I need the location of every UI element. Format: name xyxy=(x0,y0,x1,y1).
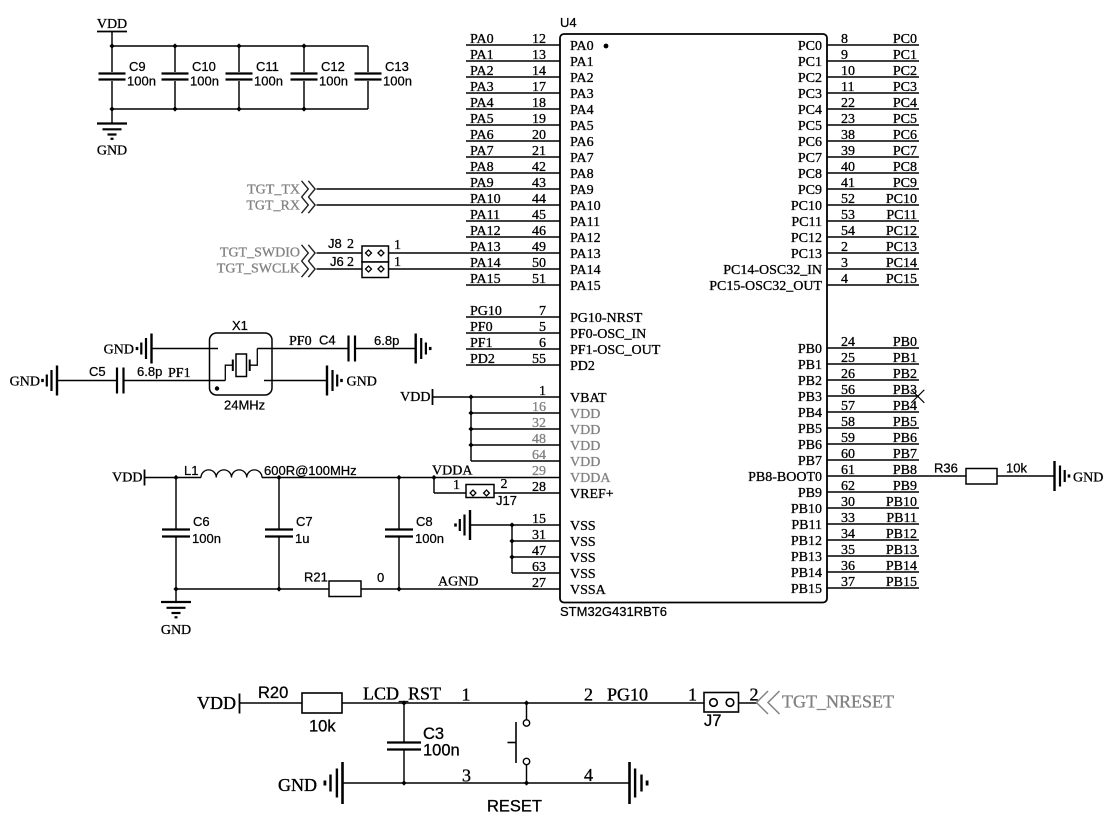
svg-text:GND: GND xyxy=(97,144,127,159)
junction (VREF tap) xyxy=(431,475,436,480)
svg-text:PB11: PB11 xyxy=(791,518,822,533)
svg-text:30: 30 xyxy=(841,495,855,510)
svg-text:PB0: PB0 xyxy=(893,335,917,350)
capacitor C8 xyxy=(398,478,400,530)
svg-text:58: 58 xyxy=(841,415,855,430)
svg-text:PA4: PA4 xyxy=(470,96,494,111)
wire J17 to VREF+ pin xyxy=(494,492,560,494)
svg-text:PB13: PB13 xyxy=(791,550,822,565)
wire VDD to L1 xyxy=(145,477,201,479)
ground (VSS) xyxy=(469,510,471,540)
svg-text:VDD: VDD xyxy=(570,455,600,470)
svg-text:PC0: PC0 xyxy=(893,32,917,47)
ground GND (right of R36) xyxy=(1053,461,1055,491)
svg-text:2: 2 xyxy=(347,255,354,270)
svg-text:VDD: VDD xyxy=(570,423,600,438)
U4 pin 23 PC5 xyxy=(827,124,919,126)
svg-text:PA5: PA5 xyxy=(570,119,594,134)
svg-text:VSS: VSS xyxy=(570,567,596,582)
junction (C8 tap) xyxy=(396,475,401,480)
junction (C3 tap) xyxy=(401,700,406,705)
svg-text:PB8-BOOT0: PB8-BOOT0 xyxy=(748,470,822,485)
junction xyxy=(301,43,306,48)
svg-text:GND: GND xyxy=(347,375,377,390)
svg-text:PA2: PA2 xyxy=(470,64,494,79)
svg-text:PA6: PA6 xyxy=(570,135,594,150)
U4 pin 51 PA15 xyxy=(466,284,560,286)
svg-text:1: 1 xyxy=(394,238,401,253)
svg-text:PA15: PA15 xyxy=(570,279,601,294)
svg-text:14: 14 xyxy=(532,64,546,79)
svg-text:19: 19 xyxy=(532,112,546,127)
svg-text:34: 34 xyxy=(841,527,855,542)
svg-text:PC5: PC5 xyxy=(798,119,822,134)
U4 pin 37 PB15 xyxy=(827,587,919,589)
svg-text:PA10: PA10 xyxy=(470,192,501,207)
svg-text:PB1: PB1 xyxy=(798,358,822,373)
svg-text:18: 18 xyxy=(532,96,546,111)
svg-text:TGT_RX: TGT_RX xyxy=(246,199,300,214)
U4 pin 36 PB14 xyxy=(827,571,919,573)
U4 pin 45 PA11 xyxy=(466,220,560,222)
U4 pin 24 PB0 xyxy=(827,347,919,349)
svg-text:50: 50 xyxy=(532,256,546,271)
U4 pin 59 PB6 xyxy=(827,443,919,445)
svg-text:J6: J6 xyxy=(330,254,344,269)
svg-text:3: 3 xyxy=(841,256,848,271)
svg-text:PA15: PA15 xyxy=(470,272,501,287)
svg-text:100n: 100n xyxy=(415,531,444,546)
U4 pin 11 PC3 xyxy=(827,92,919,94)
svg-text:PB7: PB7 xyxy=(798,454,822,469)
U4 pin 18 PA4 xyxy=(466,108,560,110)
svg-text:3: 3 xyxy=(462,766,471,786)
svg-text:51: 51 xyxy=(532,272,546,287)
U4 pin 57 PB4 xyxy=(827,411,919,413)
ground (right of C4) xyxy=(415,334,417,364)
U4 pin 33 PB11 xyxy=(827,523,919,525)
svg-text:PB3: PB3 xyxy=(798,390,822,405)
svg-text:PC2: PC2 xyxy=(798,71,822,86)
svg-text:PB14: PB14 xyxy=(791,566,822,581)
svg-text:PB14: PB14 xyxy=(886,559,917,574)
svg-text:VDD: VDD xyxy=(570,407,600,422)
svg-text:VDD: VDD xyxy=(570,439,600,454)
junction xyxy=(236,43,241,48)
svg-text:25: 25 xyxy=(841,351,855,366)
wire VSS branch to pin xyxy=(512,524,560,526)
svg-text:5: 5 xyxy=(539,320,546,335)
svg-text:2: 2 xyxy=(347,237,354,252)
svg-text:PA7: PA7 xyxy=(470,144,494,159)
U4 pin 20 PA6 xyxy=(466,140,560,142)
svg-text:PD2: PD2 xyxy=(470,352,495,367)
wire GND to VSS branch xyxy=(471,524,512,526)
svg-text:PA0: PA0 xyxy=(470,32,494,47)
wire VDD branch to pin xyxy=(471,412,560,414)
svg-text:1: 1 xyxy=(688,685,697,705)
svg-text:VDDA: VDDA xyxy=(432,464,473,479)
svg-text:STM32G431RBT6: STM32G431RBT6 xyxy=(560,604,667,619)
ground GND (below C9) xyxy=(111,109,113,123)
svg-text:C6: C6 xyxy=(193,514,210,529)
wire bottom bus xyxy=(112,108,368,110)
svg-text:2: 2 xyxy=(841,240,848,255)
svg-text:47: 47 xyxy=(532,544,546,559)
wire VSS branch to pin xyxy=(512,572,560,574)
svg-text:VSS: VSS xyxy=(570,551,596,566)
svg-text:PB9: PB9 xyxy=(893,479,917,494)
svg-text:2: 2 xyxy=(584,685,593,705)
svg-text:C9: C9 xyxy=(129,59,146,74)
wire PB8 to R36 xyxy=(827,475,966,477)
svg-text:45: 45 xyxy=(532,208,546,223)
U4 pin 7 PG10 xyxy=(466,316,560,318)
svg-text:PA6: PA6 xyxy=(470,128,494,143)
svg-text:24: 24 xyxy=(841,335,855,350)
svg-text:VDD: VDD xyxy=(400,390,430,405)
svg-text:C12: C12 xyxy=(321,59,345,74)
svg-text:53: 53 xyxy=(841,208,855,223)
svg-text:600R@100MHz: 600R@100MHz xyxy=(264,463,357,478)
junction xyxy=(509,538,514,543)
wire J6 to PA14 xyxy=(389,268,561,270)
junction xyxy=(509,522,514,527)
svg-text:PC7: PC7 xyxy=(893,144,917,159)
svg-text:PC8: PC8 xyxy=(893,160,917,175)
svg-text:VREF+: VREF+ xyxy=(570,487,614,502)
svg-text:PA11: PA11 xyxy=(570,215,600,230)
svg-text:PC13: PC13 xyxy=(791,247,822,262)
svg-text:PA13: PA13 xyxy=(470,240,501,255)
svg-text:PA3: PA3 xyxy=(470,80,494,95)
wire TGT_TX to PA9 xyxy=(317,188,561,190)
svg-text:2: 2 xyxy=(501,477,508,492)
svg-text:PB15: PB15 xyxy=(791,582,822,597)
svg-text:PC14-OSC32_IN: PC14-OSC32_IN xyxy=(723,263,822,278)
svg-text:37: 37 xyxy=(841,575,855,590)
svg-text:PB6: PB6 xyxy=(893,431,917,446)
svg-text:PC9: PC9 xyxy=(798,183,822,198)
U4 pin 34 PB12 xyxy=(827,539,919,541)
jumper J6 xyxy=(362,262,389,278)
U4 pin 17 PA3 xyxy=(466,92,560,94)
svg-text:39: 39 xyxy=(841,144,855,159)
junction (C7 tap) xyxy=(276,475,281,480)
svg-text:PB6: PB6 xyxy=(798,438,822,453)
svg-text:PA8: PA8 xyxy=(470,160,494,175)
svg-text:1u: 1u xyxy=(295,531,309,546)
wire VDD branch to pin xyxy=(471,444,560,446)
svg-text:VSSA: VSSA xyxy=(570,583,607,598)
svg-text:1: 1 xyxy=(394,255,401,270)
svg-text:52: 52 xyxy=(841,192,855,207)
svg-text:PA1: PA1 xyxy=(470,48,494,63)
svg-text:VSS: VSS xyxy=(570,535,596,550)
svg-text:PF1-OSC_OUT: PF1-OSC_OUT xyxy=(570,343,661,358)
svg-text:0: 0 xyxy=(377,570,384,585)
svg-text:PC4: PC4 xyxy=(798,103,822,118)
wire bottom reset rail xyxy=(344,782,630,784)
svg-text:TGT_TX: TGT_TX xyxy=(247,183,300,198)
svg-text:PB10: PB10 xyxy=(791,502,822,517)
U4 pin 5 PF0 xyxy=(466,332,560,334)
junction xyxy=(468,410,473,415)
svg-text:TGT_NRESET: TGT_NRESET xyxy=(782,692,894,712)
svg-text:41: 41 xyxy=(841,176,855,191)
capacitor C10 xyxy=(174,46,176,72)
svg-text:PC15: PC15 xyxy=(886,272,917,287)
svg-text:PA4: PA4 xyxy=(570,103,594,118)
svg-text:GND: GND xyxy=(10,375,40,390)
svg-text:C4: C4 xyxy=(319,333,336,348)
svg-text:PC15-OSC32_OUT: PC15-OSC32_OUT xyxy=(709,279,822,294)
svg-text:RESET: RESET xyxy=(487,798,542,816)
junction (button bottom) xyxy=(524,780,529,785)
svg-text:PB12: PB12 xyxy=(791,534,822,549)
svg-text:36: 36 xyxy=(841,559,855,574)
svg-text:GND: GND xyxy=(1073,471,1103,486)
svg-text:28: 28 xyxy=(532,480,546,495)
svg-text:PA9: PA9 xyxy=(470,176,494,191)
wire VDDA to J17 xyxy=(433,478,435,494)
svg-text:100n: 100n xyxy=(383,74,412,89)
svg-text:PC12: PC12 xyxy=(886,224,917,239)
svg-text:PC8: PC8 xyxy=(798,167,822,182)
svg-text:PG10-NRST: PG10-NRST xyxy=(570,311,643,326)
svg-text:PB9: PB9 xyxy=(798,486,822,501)
svg-text:PC11: PC11 xyxy=(791,215,822,230)
svg-text:C3: C3 xyxy=(423,725,444,743)
svg-text:PB11: PB11 xyxy=(886,511,917,526)
wire VDD branch vertical xyxy=(470,397,472,461)
U4 pin 2 PC13 xyxy=(827,252,919,254)
svg-text:PB3: PB3 xyxy=(893,383,917,398)
U4 pin 3 PC14 xyxy=(827,268,919,270)
junction xyxy=(396,586,401,591)
svg-text:64: 64 xyxy=(532,448,546,463)
svg-text:R20: R20 xyxy=(258,684,288,702)
jumper J17 xyxy=(466,485,494,498)
capacitor C3 xyxy=(403,703,405,742)
svg-text:PC2: PC2 xyxy=(893,64,917,79)
U4 pin 14 PA2 xyxy=(466,76,560,78)
svg-text:PF1: PF1 xyxy=(168,366,191,381)
svg-text:PC6: PC6 xyxy=(798,135,822,150)
svg-text:PC4: PC4 xyxy=(893,96,917,111)
svg-text:VDD: VDD xyxy=(112,471,142,486)
svg-text:PC0: PC0 xyxy=(798,39,822,54)
U4 pin 42 PA8 xyxy=(466,172,560,174)
svg-text:PA8: PA8 xyxy=(570,167,594,182)
svg-text:GND: GND xyxy=(161,623,191,638)
junction (C3 bottom) xyxy=(401,780,406,785)
svg-text:44: 44 xyxy=(532,192,546,207)
svg-text:PF1: PF1 xyxy=(470,336,493,351)
wire L1 to VDDA pin xyxy=(262,477,560,479)
svg-text:43: 43 xyxy=(532,176,546,191)
U4 pin 58 PB5 xyxy=(827,427,919,429)
svg-text:PC1: PC1 xyxy=(893,48,917,63)
junction xyxy=(173,586,178,591)
svg-text:11: 11 xyxy=(841,80,854,95)
U4 pin 46 PA12 xyxy=(466,236,560,238)
junction xyxy=(468,394,473,399)
svg-text:PB2: PB2 xyxy=(798,374,822,389)
wire GND to X1 pad xyxy=(153,348,219,350)
svg-text:10k: 10k xyxy=(309,718,336,736)
svg-text:32: 32 xyxy=(532,416,546,431)
svg-text:55: 55 xyxy=(532,352,546,367)
svg-text:49: 49 xyxy=(532,240,546,255)
svg-text:100n: 100n xyxy=(254,74,283,89)
svg-text:PB10: PB10 xyxy=(886,495,917,510)
svg-text:20: 20 xyxy=(532,128,546,143)
svg-text:PC9: PC9 xyxy=(893,176,917,191)
wire VDD to R20 xyxy=(240,702,302,704)
svg-text:PA12: PA12 xyxy=(470,224,501,239)
svg-text:PF0-OSC_IN: PF0-OSC_IN xyxy=(570,327,646,342)
svg-text:100n: 100n xyxy=(319,74,348,89)
svg-text:U4: U4 xyxy=(560,15,577,30)
svg-text:42: 42 xyxy=(532,160,546,175)
svg-text:PB5: PB5 xyxy=(893,415,917,430)
svg-text:PF0: PF0 xyxy=(470,320,493,335)
svg-text:PA9: PA9 xyxy=(570,183,594,198)
svg-text:PA14: PA14 xyxy=(470,256,501,271)
wire TGT_SWDIO to J8 xyxy=(317,252,363,254)
pushbutton RESET xyxy=(526,703,528,720)
svg-text:29: 29 xyxy=(532,464,546,479)
U4 pin 19 PA5 xyxy=(466,124,560,126)
svg-text:PC1: PC1 xyxy=(798,55,822,70)
svg-text:PC5: PC5 xyxy=(893,112,917,127)
wire TGT_RX to PA10 xyxy=(317,204,561,206)
wire top bus xyxy=(112,45,368,47)
U4 pin 38 PC6 xyxy=(827,140,919,142)
wire J7 to port xyxy=(739,702,758,704)
wire VSS branch to pin xyxy=(512,540,560,542)
svg-text:40: 40 xyxy=(841,160,855,175)
svg-text:56: 56 xyxy=(841,383,855,398)
svg-text:PA5: PA5 xyxy=(470,112,494,127)
no-connect X on PB3 xyxy=(911,390,924,403)
wire R20 to J7 (LCD_RST net) xyxy=(342,702,704,704)
jumper J7 xyxy=(704,693,739,713)
svg-text:GND: GND xyxy=(278,775,317,795)
svg-text:C11: C11 xyxy=(256,59,279,74)
svg-text:8: 8 xyxy=(841,32,848,47)
U4 pin 30 PB10 xyxy=(827,507,919,509)
svg-text:TGT_SWCLK: TGT_SWCLK xyxy=(217,262,300,277)
svg-text:PA10: PA10 xyxy=(570,199,601,214)
U4 pin 56 PB3 xyxy=(827,395,919,397)
svg-text:L1: L1 xyxy=(184,463,198,478)
svg-text:R36: R36 xyxy=(934,461,958,476)
svg-text:26: 26 xyxy=(841,367,855,382)
U4 pin 4 PC15 xyxy=(827,284,919,286)
wire VDD branch to pin xyxy=(471,460,560,462)
svg-text:PA13: PA13 xyxy=(570,247,601,262)
svg-text:PA2: PA2 xyxy=(570,71,594,86)
svg-text:4: 4 xyxy=(584,765,593,785)
wire C5 to X1 xyxy=(124,380,225,382)
svg-text:1: 1 xyxy=(539,384,546,399)
U4 pin 13 PA1 xyxy=(466,60,560,62)
svg-text:VDD: VDD xyxy=(197,693,236,713)
capacitor C11 xyxy=(238,46,240,72)
svg-text:C7: C7 xyxy=(296,514,313,529)
U4 pin 35 PB13 xyxy=(827,555,919,557)
svg-text:PC3: PC3 xyxy=(893,80,917,95)
svg-text:PB7: PB7 xyxy=(893,447,917,462)
junction xyxy=(172,43,177,48)
U4 pin 8 PC0 xyxy=(827,44,919,46)
svg-text:PB15: PB15 xyxy=(886,575,917,590)
jumper J8 xyxy=(362,246,389,262)
svg-text:6.8p: 6.8p xyxy=(374,333,399,348)
junction xyxy=(468,442,473,447)
svg-text:12: 12 xyxy=(532,32,546,47)
svg-text:X1: X1 xyxy=(232,318,248,333)
svg-text:9: 9 xyxy=(841,48,848,63)
wire VSS branch to pin xyxy=(512,556,560,558)
svg-text:PC10: PC10 xyxy=(886,192,917,207)
crystal X1 case box xyxy=(210,333,273,395)
junction (button top) xyxy=(524,700,529,705)
svg-text:38: 38 xyxy=(841,128,855,143)
svg-text:PC13: PC13 xyxy=(886,240,917,255)
svg-text:33: 33 xyxy=(841,511,855,526)
svg-text:PG10: PG10 xyxy=(470,304,502,319)
svg-text:C8: C8 xyxy=(416,514,433,529)
U4 pin 62 PB9 xyxy=(827,491,919,493)
svg-text:J8: J8 xyxy=(328,236,342,251)
U4 pin 22 PC4 xyxy=(827,108,919,110)
wire GND to C5 xyxy=(58,380,117,382)
svg-text:100n: 100n xyxy=(190,74,219,89)
svg-text:21: 21 xyxy=(532,144,546,159)
wire VDD down to bus xyxy=(111,32,113,47)
svg-text:4: 4 xyxy=(841,272,848,287)
svg-text:PC12: PC12 xyxy=(791,231,822,246)
capacitor C6 xyxy=(175,478,177,530)
capacitor C7 xyxy=(278,478,280,530)
svg-text:24MHz: 24MHz xyxy=(224,398,265,413)
wire AGND bus left xyxy=(176,588,329,590)
svg-text:6: 6 xyxy=(539,336,546,351)
U4 pin 53 PC11 xyxy=(827,220,919,222)
ground GND (crystal bottom-right) xyxy=(326,366,328,396)
capacitor C9 xyxy=(111,46,113,72)
svg-text:13: 13 xyxy=(532,48,546,63)
svg-text:PA7: PA7 xyxy=(570,151,594,166)
svg-text:PD2: PD2 xyxy=(570,359,595,374)
svg-text:PB2: PB2 xyxy=(893,367,917,382)
U4 pin 55 PD2 xyxy=(466,364,560,366)
svg-text:C13: C13 xyxy=(385,59,409,74)
svg-text:PA3: PA3 xyxy=(570,87,594,102)
svg-text:15: 15 xyxy=(532,512,546,527)
svg-text:31: 31 xyxy=(532,528,546,543)
svg-text:J17: J17 xyxy=(496,493,517,508)
svg-text:TGT_SWDIO: TGT_SWDIO xyxy=(220,246,300,261)
U4 pin 60 PB7 xyxy=(827,459,919,461)
svg-text:C5: C5 xyxy=(89,364,106,379)
svg-text:100n: 100n xyxy=(192,531,221,546)
wire R36 to GND xyxy=(997,475,1054,477)
U4 pin 6 PF1 xyxy=(466,348,560,350)
